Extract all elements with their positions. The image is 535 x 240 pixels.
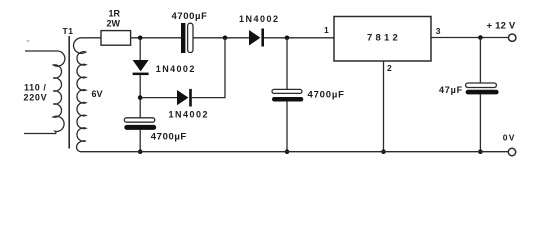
junction C3 bottom: [285, 149, 290, 154]
transformer T1 core: [68, 36, 70, 149]
transformer T1 secondary winding: [74, 38, 101, 152]
svg-text:1R: 1R: [109, 9, 121, 19]
diode D2 1N4002: [177, 89, 192, 107]
svg-text:1N4002: 1N4002: [156, 64, 196, 74]
svg-text:2: 2: [387, 63, 392, 73]
junction node A: [138, 36, 143, 41]
svg-text:4700µF: 4700µF: [308, 89, 345, 100]
svg-text:2W: 2W: [107, 19, 121, 29]
wire C4 to bottom rail: [479, 94, 481, 151]
junction node D: [138, 95, 143, 100]
bottom rail wire: [100, 151, 508, 153]
svg-text:0V: 0V: [503, 133, 516, 143]
svg-text:1N4002: 1N4002: [169, 109, 210, 119]
svg-text:47µF: 47µF: [439, 85, 463, 95]
wire resistor to node A: [131, 37, 181, 39]
diode D1 1N4002: [133, 60, 149, 75]
svg-text:+ 12 V: + 12 V: [487, 20, 516, 31]
svg-text:110 /: 110 /: [24, 82, 47, 92]
wire D3 to regulator input: [264, 37, 334, 39]
capacitor C4 47uF: [466, 83, 499, 94]
wire node C down to C3: [286, 38, 288, 90]
capacitor C3 4700uF: [272, 89, 303, 101]
svg-text:3: 3: [436, 26, 441, 36]
wire D1 branch down: [139, 38, 141, 60]
junction C2 bottom: [138, 149, 143, 154]
wire regulator output: [431, 37, 508, 39]
junction pin2 bottom: [381, 149, 386, 154]
terminal 0V: [508, 148, 515, 155]
capacitor C2 4700uF: [124, 118, 156, 130]
resistor R1: [101, 31, 131, 46]
junction node C: [285, 36, 290, 41]
capacitor C1 4700uF series: [181, 23, 193, 53]
junction node E: [478, 35, 483, 40]
wire node D to D2: [140, 97, 177, 99]
regulator U1 7812: [334, 17, 431, 62]
stray mark above primary lead: [27, 40, 30, 41]
svg-text:6V: 6V: [92, 89, 103, 99]
wire D1 to node D: [139, 75, 141, 118]
wire C1 to node B: [193, 37, 249, 39]
wire C3 to bottom rail: [286, 102, 288, 152]
svg-text:4700µF: 4700µF: [172, 11, 208, 22]
wire C2 to bottom rail: [139, 130, 141, 152]
wire D2 to node B riser: [192, 38, 225, 98]
svg-text:220V: 220V: [24, 92, 48, 102]
svg-text:T1: T1: [63, 26, 74, 36]
svg-text:7812: 7812: [367, 32, 401, 43]
junction node B: [223, 36, 228, 41]
svg-text:4700µF: 4700µF: [151, 132, 187, 143]
diode D3 1N4002 series: [249, 29, 264, 47]
junction C4 bottom: [478, 149, 483, 154]
transformer T1 primary winding: [24, 51, 65, 134]
wire pin 2 to ground rail: [383, 61, 385, 152]
terminal +12V: [509, 34, 516, 41]
svg-text:1: 1: [324, 25, 329, 35]
svg-text:1N4002: 1N4002: [239, 14, 280, 24]
wire node E down to C4: [479, 38, 481, 84]
